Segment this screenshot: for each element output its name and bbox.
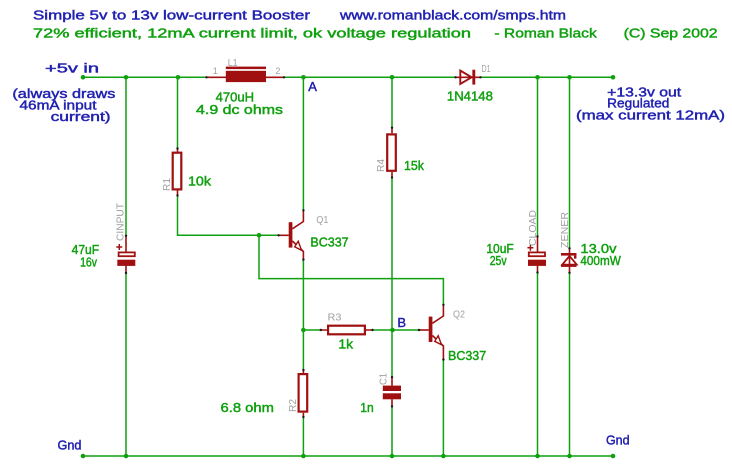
svg-text:25v: 25v (490, 253, 507, 268)
wire node B to Q2 base (393, 329, 419, 331)
resistor R2 (299, 369, 308, 418)
diode D1 (454, 70, 481, 85)
CLOAD plus sign (527, 245, 533, 251)
svg-text:Q1: Q1 (316, 214, 328, 226)
svg-text:A: A (308, 79, 317, 94)
junction dot Q1 base (257, 233, 262, 238)
capacitor C1 (383, 376, 401, 408)
zener diode ZENER (561, 247, 577, 274)
svg-text:1N4148: 1N4148 (447, 88, 493, 103)
svg-text:R2: R2 (287, 399, 299, 412)
junction dots bottom rail (81, 454, 616, 459)
svg-text:1k: 1k (338, 337, 353, 352)
wire bottom rail (83, 455, 613, 457)
svg-text:Gnd: Gnd (58, 438, 82, 453)
wire node A down to Q1 collector (302, 77, 304, 210)
svg-text:1n: 1n (360, 400, 374, 415)
svg-text:R4: R4 (375, 159, 387, 172)
svg-text:B: B (397, 315, 406, 330)
resistor R4 (387, 127, 396, 179)
resistor R3 (horizontal) (320, 326, 374, 335)
svg-text:Gnd: Gnd (606, 433, 630, 448)
svg-text:current): current) (51, 109, 111, 124)
svg-text:C1: C1 (378, 373, 390, 385)
svg-text:ZENER: ZENER (559, 212, 571, 248)
label +13.3v out Regulated (max current 12mA) (576, 85, 725, 123)
svg-text:BC337: BC337 (310, 235, 348, 250)
transistor Q1 (277, 209, 304, 261)
junction dot node B (390, 328, 395, 333)
svg-text:D1: D1 (482, 63, 491, 75)
wire Q1 emitter down to R2 (302, 260, 304, 456)
wire R1 column and Q1 base run (178, 77, 279, 235)
svg-text:R3: R3 (328, 312, 342, 324)
wire Q2 emitter down (442, 360, 444, 456)
junction dots top rail (81, 75, 616, 80)
svg-text:2: 2 (275, 66, 280, 76)
svg-text:400mW: 400mW (580, 253, 621, 268)
svg-text:1: 1 (213, 66, 218, 76)
resistor R1 (173, 147, 182, 196)
svg-text:72% efficient, 12mA current li: 72% efficient, 12mA current limit, ok vo… (33, 26, 471, 41)
svg-text:L1: L1 (228, 57, 238, 69)
svg-text:15k: 15k (404, 158, 424, 173)
wire Q1 base junction down and across to Q2 collector (259, 235, 443, 304)
capacitor CLOAD (528, 235, 546, 273)
svg-text:Simple 5v to 13v low-current B: Simple 5v to 13v low-current Booster (33, 8, 311, 23)
svg-text:4.9 dc ohms: 4.9 dc ohms (196, 102, 284, 117)
svg-text:16v: 16v (80, 255, 97, 270)
CINPUT plus sign (116, 244, 122, 250)
svg-text:(max current 12mA): (max current 12mA) (576, 108, 725, 123)
wire CLOAD column (537, 77, 539, 456)
junction dot node at R2 top (301, 328, 306, 333)
inductor L1 (205, 67, 285, 83)
wire R3 leads run (303, 329, 392, 331)
wire CINPUT column (125, 77, 127, 456)
svg-text:10k: 10k (188, 174, 212, 189)
svg-text:+5v in: +5v in (45, 61, 99, 76)
wire zener column (569, 77, 571, 456)
svg-text:- Roman Black: - Roman Black (494, 26, 597, 41)
wire R4 column node B and C1 (391, 77, 393, 456)
svg-text:R1: R1 (161, 178, 173, 191)
svg-text:www.romanblack.com/smps.htm: www.romanblack.com/smps.htm (339, 8, 566, 23)
svg-text:BC337: BC337 (448, 348, 486, 363)
wire top rail (83, 76, 613, 78)
svg-text:CINPUT: CINPUT (115, 202, 127, 241)
note always draws 46mA input current (12, 86, 116, 124)
title line 1 (33, 8, 566, 23)
svg-text:Q2: Q2 (453, 309, 465, 321)
title line 2 (33, 26, 718, 41)
svg-text:(C) Sep 2002: (C) Sep 2002 (624, 26, 718, 41)
capacitor CINPUT (117, 235, 135, 275)
transistor Q2 (418, 304, 445, 361)
svg-text:6.8 ohm: 6.8 ohm (221, 400, 274, 415)
svg-text:CLOAD: CLOAD (527, 210, 539, 246)
